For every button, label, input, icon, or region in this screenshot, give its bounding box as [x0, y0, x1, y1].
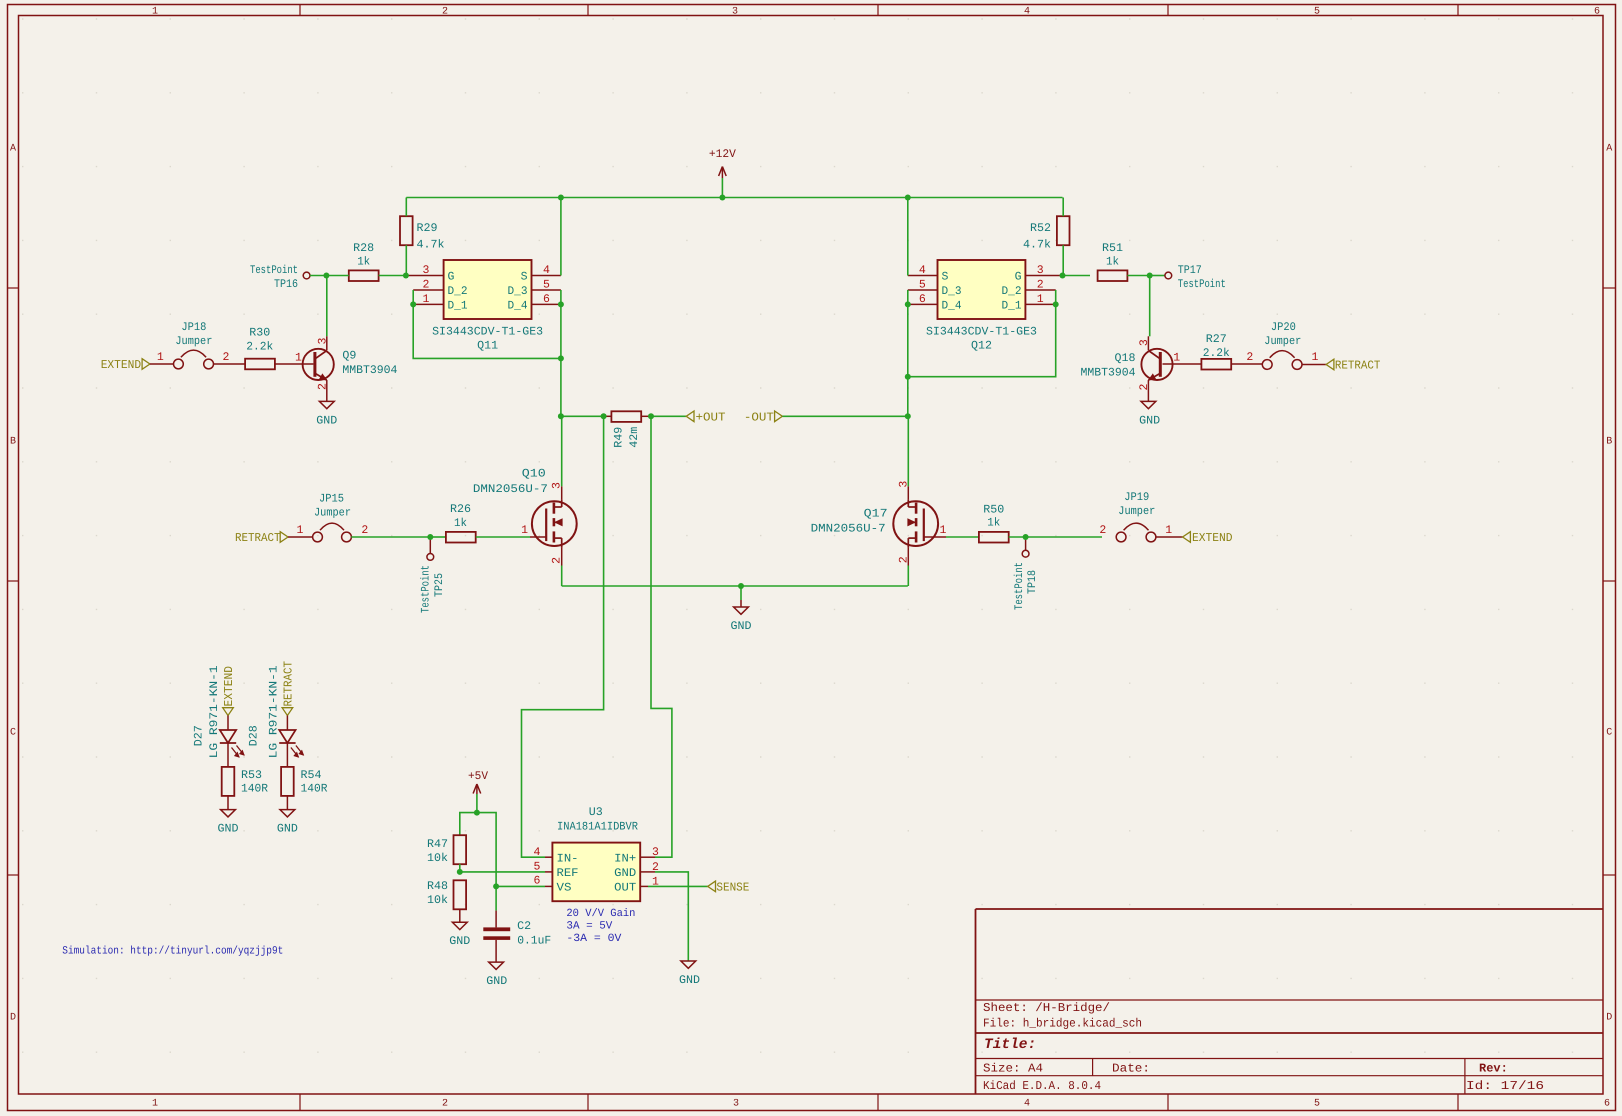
wire R54 to ground — [286, 796, 288, 809]
svg-text:5: 5 — [919, 279, 926, 292]
svg-text:6: 6 — [919, 293, 926, 306]
JP15 pin 1 number — [296, 524, 303, 537]
svg-text:2: 2 — [423, 279, 430, 292]
svg-text:A: A — [1606, 144, 1612, 155]
svg-text:TP18: TP18 — [1026, 570, 1039, 594]
svg-text:Q17: Q17 — [864, 508, 888, 521]
svg-text:+5V: +5V — [468, 770, 488, 783]
wire Q18 emitter to ground — [1147, 380, 1149, 401]
svg-text:Sheet: /H-Bridge/: Sheet: /H-Bridge/ — [983, 1001, 1110, 1015]
wire Q9 collector — [326, 276, 328, 351]
title block kicad text — [983, 1079, 1101, 1093]
svg-text:1: 1 — [1173, 352, 1180, 365]
svg-text:D28: D28 — [248, 725, 261, 746]
svg-text:TP16: TP16 — [274, 278, 298, 291]
svg-text:JP19: JP19 — [1124, 491, 1149, 504]
svg-text:42m: 42m — [628, 427, 641, 448]
frame column ticks — [300, 5, 1458, 1111]
svg-text:5: 5 — [534, 860, 541, 873]
svg-text:1k: 1k — [1106, 256, 1119, 269]
resistor R49 42m shunt — [611, 411, 641, 447]
svg-text:+OUT: +OUT — [696, 410, 726, 424]
ground R48 — [449, 922, 470, 948]
junction Q11 bracket / drain column — [558, 355, 564, 361]
wire IN- sense from +OUT — [522, 416, 604, 857]
svg-text:JP18: JP18 — [181, 321, 206, 334]
wire EXTEND to JP18 — [150, 363, 174, 365]
svg-text:1: 1 — [1312, 351, 1319, 364]
svg-text:140R: 140R — [301, 783, 328, 796]
svg-text:R26: R26 — [450, 503, 471, 516]
resistor R27 — [1201, 333, 1231, 370]
Q11 pin 3 G — [406, 264, 444, 277]
JP19 pin 1 number — [1165, 524, 1172, 537]
wire R30 to Q9 base — [275, 363, 313, 365]
junction +12V rail / Q11 S — [558, 195, 564, 201]
svg-text:MMBT3904: MMBT3904 — [342, 364, 397, 377]
junction Q11 D_4 — [558, 301, 564, 307]
svg-text:6: 6 — [1594, 7, 1600, 18]
Q10 pin 3 number — [550, 482, 563, 489]
wire source rail — [562, 585, 908, 587]
svg-text:TestPoint: TestPoint — [1178, 278, 1226, 291]
Q10 pin 2 number — [550, 557, 563, 564]
svg-text:S: S — [521, 271, 528, 284]
svg-text:GND: GND — [277, 823, 298, 836]
Q12 pin 3 G — [1025, 264, 1062, 277]
svg-text:GND: GND — [316, 414, 337, 427]
Q11 pin names — [448, 271, 528, 313]
ground D27 — [218, 810, 239, 836]
junction Q12 D_4 — [905, 301, 911, 307]
wire R49 to +OUT label — [651, 415, 686, 417]
wire Q12 D_2/D_1 right bracket — [908, 290, 1056, 377]
U3 pin 1 OUT — [640, 875, 659, 888]
junction -OUT / Q17 drain column — [905, 413, 911, 419]
wire D27 to R53 — [227, 743, 229, 766]
resistor R26 — [446, 503, 476, 543]
svg-text:2: 2 — [222, 351, 229, 364]
wire VS to U3 — [496, 885, 552, 887]
svg-text:10k: 10k — [427, 894, 448, 907]
junction +OUT / IN- sense — [601, 413, 607, 419]
svg-text:A: A — [10, 144, 16, 155]
wire R47 to REF junction — [459, 864, 461, 872]
svg-text:DMN2056U-7: DMN2056U-7 — [811, 523, 886, 536]
svg-text:G: G — [448, 271, 455, 284]
junction REF — [457, 869, 463, 875]
svg-text:VS: VS — [557, 882, 572, 895]
svg-text:R53: R53 — [241, 769, 262, 782]
JP20 pin 1 number — [1312, 351, 1319, 364]
svg-text:1k: 1k — [987, 517, 1000, 530]
Q11 reference label — [477, 340, 498, 353]
junction Q11 D_1 — [410, 301, 416, 307]
svg-text:D_4: D_4 — [942, 300, 962, 313]
svg-text:U3: U3 — [589, 806, 603, 819]
svg-text:3: 3 — [316, 337, 329, 344]
U3 pin 6 VS number — [534, 874, 541, 887]
Q11 pin 2 D_2 — [413, 279, 443, 292]
svg-text:2: 2 — [550, 557, 563, 564]
svg-text:MMBT3904: MMBT3904 — [1081, 367, 1136, 380]
svg-text:Id: 17/16: Id: 17/16 — [1466, 1079, 1544, 1093]
wire R52 top — [1062, 198, 1065, 217]
ground center — [731, 586, 752, 633]
wire +12V rail — [406, 197, 1062, 199]
svg-text:140R: 140R — [241, 783, 268, 796]
svg-text:2: 2 — [1246, 351, 1253, 364]
wire junction to R26 — [430, 536, 446, 538]
wire R52 bottom — [1062, 245, 1064, 275]
svg-text:SI3443CDV-T1-GE3: SI3443CDV-T1-GE3 — [432, 326, 543, 339]
Q18 pin 1 number — [1173, 352, 1180, 365]
svg-text:+12V: +12V — [709, 148, 736, 161]
wire R28 to gate junction — [379, 275, 406, 277]
hierarchical label RETRACT left — [235, 531, 288, 545]
svg-text:RETRACT: RETRACT — [235, 531, 281, 545]
Q18 pin 3 number — [1138, 339, 1151, 346]
svg-text:B: B — [10, 437, 16, 448]
svg-text:RETRACT: RETRACT — [1335, 359, 1381, 373]
svg-text:Q10: Q10 — [522, 468, 546, 481]
wire +OUT from drain column — [561, 415, 604, 417]
wire U3 GND pin to ground — [655, 872, 688, 961]
testpoint TP16 — [250, 264, 310, 291]
svg-text:5: 5 — [1314, 1099, 1320, 1110]
svg-text:D: D — [10, 1013, 16, 1024]
JP19 pin 2 number — [1099, 524, 1106, 537]
jumper JP18 — [174, 321, 214, 369]
svg-text:2: 2 — [1099, 524, 1106, 537]
svg-text:6: 6 — [534, 874, 541, 887]
svg-text:GND: GND — [679, 974, 700, 987]
led D27 LG R971-KN-1 — [193, 665, 245, 758]
svg-text:Q9: Q9 — [342, 350, 356, 363]
ground C2 — [486, 962, 507, 988]
Q12 reference label — [971, 340, 992, 353]
U3 pin 5 REF number — [534, 860, 541, 873]
svg-text:3: 3 — [732, 7, 738, 18]
svg-text:1: 1 — [152, 1099, 158, 1110]
resistor R51 — [1098, 242, 1128, 281]
svg-text:EXTEND: EXTEND — [1192, 531, 1233, 545]
svg-text:C2: C2 — [517, 920, 531, 933]
svg-text:-OUT: -OUT — [744, 410, 774, 424]
svg-text:2: 2 — [442, 1099, 448, 1110]
svg-text:D_2: D_2 — [448, 285, 468, 298]
svg-text:3: 3 — [733, 1099, 739, 1110]
ground D28 — [277, 810, 298, 836]
JP18 pin 1 number — [157, 351, 164, 364]
junction TP17 / Q18 collector — [1147, 273, 1153, 279]
svg-text:3: 3 — [652, 846, 659, 859]
svg-text:4: 4 — [543, 264, 550, 277]
Q9 pin 1 number — [295, 352, 302, 365]
wire R51 to TP17 junction — [1127, 275, 1149, 277]
svg-text:R48: R48 — [427, 880, 448, 893]
svg-text:R28: R28 — [353, 242, 374, 255]
svg-text:D27: D27 — [193, 725, 206, 746]
junction Q12 D_1 — [1053, 301, 1059, 307]
resistor R47 — [427, 835, 466, 865]
svg-text:Size: A4: Size: A4 — [983, 1062, 1043, 1076]
svg-text:OUT: OUT — [614, 882, 636, 895]
resistor R50 — [979, 504, 1009, 543]
wire JP18 to R30 — [213, 363, 245, 365]
Q12 pin 2 D_2 — [1025, 279, 1055, 292]
svg-text:R49: R49 — [612, 427, 625, 448]
transistor Q18 MMBT3904 — [1081, 349, 1173, 380]
Q12 pin 4 S — [908, 264, 938, 277]
resistor R54 — [281, 767, 327, 796]
wire RETRACT to D28 — [286, 716, 288, 731]
svg-text:2.2k: 2.2k — [246, 340, 273, 353]
svg-text:0.1uF: 0.1uF — [517, 934, 551, 947]
Q12 pin 1 D_1 — [1025, 293, 1055, 306]
Q9 pin 2 number — [316, 383, 329, 390]
svg-text:2: 2 — [442, 7, 448, 18]
svg-text:TP25: TP25 — [433, 573, 446, 597]
Q12 pin names — [942, 271, 1022, 313]
wire junction to TP17 — [1150, 275, 1165, 277]
svg-text:SENSE: SENSE — [716, 881, 749, 895]
resistor R30 — [245, 326, 275, 369]
title block frame — [976, 909, 1604, 1094]
svg-text:GND: GND — [1139, 414, 1160, 427]
svg-text:G: G — [1015, 271, 1022, 284]
wire R29 top — [405, 198, 407, 217]
junction VS — [493, 883, 499, 889]
wire R29 bottom — [405, 245, 407, 275]
junction +12V rail / +12V symbol — [719, 195, 725, 201]
wire C2 to ground — [495, 940, 497, 962]
wire JP19 to EXTEND — [1156, 536, 1183, 538]
wire R27 to JP20 — [1231, 363, 1262, 365]
Q10 pin 1 number — [521, 524, 528, 537]
wire Q17 drain — [907, 416, 909, 499]
svg-text:4.7k: 4.7k — [1023, 239, 1051, 252]
svg-text:2.2k: 2.2k — [1203, 347, 1230, 360]
wire Q11 S drop — [560, 198, 562, 276]
svg-text:3: 3 — [897, 481, 910, 488]
junction +5V — [474, 810, 480, 816]
wire +5V distribution — [460, 813, 496, 887]
svg-text:LG R971-KN-1: LG R971-KN-1 — [208, 665, 221, 758]
junction TP25 — [427, 534, 433, 540]
svg-text:JP20: JP20 — [1271, 321, 1296, 334]
wire JP15 to TP25 junction — [351, 536, 430, 538]
wire to R49 left — [604, 415, 612, 417]
svg-text:5: 5 — [543, 279, 550, 292]
Q11 pin 1 D_1 — [413, 293, 443, 306]
svg-text:TestPoint: TestPoint — [1013, 562, 1026, 610]
hierarchical label SENSE — [708, 881, 750, 895]
mosfet array Q12 SI3443CDV body — [938, 260, 1026, 319]
Q12 pin 5 D_3 — [908, 279, 938, 292]
junction R49 / IN+ sense — [648, 413, 654, 419]
junction TP16 / R28 / Q9 collector — [323, 273, 329, 279]
wire Q10 source — [561, 548, 563, 586]
wire Q18 base to R27 — [1163, 363, 1202, 365]
Q11 pin 5 D_3 — [532, 279, 561, 292]
resistor R28 — [349, 242, 379, 281]
svg-text:R51: R51 — [1102, 242, 1123, 255]
title block id text — [1466, 1079, 1544, 1093]
svg-text:3: 3 — [1138, 339, 1151, 346]
wire REF to U3 — [460, 871, 553, 873]
svg-text:2: 2 — [1037, 279, 1044, 292]
svg-text:GND: GND — [449, 935, 470, 948]
hierarchical label EXTEND right — [1183, 531, 1233, 545]
svg-text:1: 1 — [295, 352, 302, 365]
svg-text:D_3: D_3 — [942, 285, 962, 298]
JP15 pin 2 number — [361, 524, 368, 537]
Q9 pin 3 number — [316, 337, 329, 344]
mosfet Q17 DMN2056U-7 — [811, 500, 938, 548]
wire IN+ sense from -OUT — [651, 416, 672, 857]
resistor R48 — [427, 880, 466, 909]
svg-text:INA181A1IDBVR: INA181A1IDBVR — [557, 820, 638, 833]
title block title text — [984, 1037, 1036, 1053]
power +12V — [709, 148, 736, 198]
hierarchical label EXTEND vertical — [222, 666, 236, 716]
svg-text:File: h_bridge.kicad_sch: File: h_bridge.kicad_sch — [983, 1017, 1142, 1031]
svg-text:Q18: Q18 — [1115, 352, 1136, 365]
wire junction to R51 — [1063, 275, 1091, 277]
mosfet Q10 DMN2056U-7 — [473, 468, 577, 548]
JP20 pin 2 number — [1246, 351, 1253, 364]
wire Q11 D_2/D_1 left bracket — [413, 290, 561, 358]
svg-text:R54: R54 — [301, 769, 322, 782]
svg-text:GND: GND — [731, 620, 752, 633]
title block file text — [983, 1017, 1142, 1031]
jumper JP19 — [1116, 491, 1156, 542]
svg-text:1: 1 — [423, 293, 430, 306]
resistor R53 — [222, 767, 268, 796]
U3 reference label — [589, 806, 603, 819]
led D28 LG R971-KN-1 — [248, 665, 304, 758]
frame row letters — [10, 144, 1612, 1024]
svg-text:1k: 1k — [357, 256, 370, 269]
svg-text:1k: 1k — [454, 517, 467, 530]
svg-text:B: B — [1606, 437, 1612, 448]
junction R29 / R28 / Q11 G — [403, 273, 409, 279]
hierarchical label -OUT — [744, 410, 783, 424]
U3 pin 3 IN+ — [640, 846, 659, 859]
svg-text:C: C — [10, 728, 16, 739]
wire D28 to R54 — [286, 743, 288, 766]
svg-text:D_1: D_1 — [1002, 300, 1022, 313]
svg-text:SI3443CDV-T1-GE3: SI3443CDV-T1-GE3 — [926, 326, 1037, 339]
ground U3 — [679, 961, 700, 987]
svg-text:Jumper: Jumper — [175, 335, 212, 348]
svg-text:TP17: TP17 — [1178, 264, 1202, 277]
wire VS junction to C2 — [495, 886, 497, 927]
svg-text:EXTEND: EXTEND — [101, 358, 142, 372]
svg-text:R29: R29 — [417, 222, 438, 235]
svg-text:IN-: IN- — [557, 852, 579, 865]
Q12 pin 6 D_4 — [908, 293, 938, 306]
svg-text:10k: 10k — [427, 852, 448, 865]
ground Q9 — [316, 401, 337, 427]
wire Q9 emitter to ground — [326, 380, 328, 401]
mosfet array Q11 SI3443CDV body — [444, 260, 532, 319]
svg-text:-3A = 0V: -3A = 0V — [566, 933, 621, 945]
wire R48 to ground — [459, 909, 461, 922]
svg-text:3: 3 — [423, 264, 430, 277]
junction R52 / Q12 G / R51 — [1060, 273, 1066, 279]
svg-text:2: 2 — [361, 524, 368, 537]
svg-text:R47: R47 — [427, 838, 448, 851]
svg-text:4: 4 — [1024, 7, 1030, 18]
U3 pin 2 GND — [640, 861, 659, 874]
Q11 pin 4 S — [532, 264, 561, 277]
Q12 value label — [926, 326, 1037, 339]
svg-text:JP15: JP15 — [319, 493, 344, 506]
svg-text:D_1: D_1 — [448, 300, 468, 313]
frame row ticks — [8, 288, 1616, 875]
svg-text:TestPoint: TestPoint — [250, 264, 298, 277]
wire Q10 drain — [561, 416, 563, 499]
wire Q12 D3/D4 drop — [907, 290, 909, 416]
svg-text:3: 3 — [550, 482, 563, 489]
testpoint TP17 — [1165, 264, 1226, 291]
wire TP16 to junction — [310, 275, 326, 277]
wire Q11 D3/D4 drop to +OUT — [560, 290, 562, 416]
svg-text:D_4: D_4 — [508, 300, 528, 313]
junction TP18 — [1023, 534, 1029, 540]
testpoint TP25 — [420, 537, 446, 613]
svg-text:TestPoint: TestPoint — [420, 565, 433, 613]
svg-text:1: 1 — [152, 7, 158, 18]
svg-text:3A = 5V: 3A = 5V — [566, 921, 612, 933]
svg-text:3: 3 — [1037, 264, 1044, 277]
wire -OUT to Q17 drain column — [782, 415, 907, 417]
wire junction to R28 — [326, 275, 348, 277]
hierarchical label EXTEND left — [101, 358, 150, 372]
svg-text:Jumper: Jumper — [1118, 505, 1155, 518]
svg-text:R52: R52 — [1030, 222, 1051, 235]
U3 gain note text — [566, 908, 635, 945]
svg-text:D_2: D_2 — [1002, 285, 1022, 298]
svg-text:1: 1 — [1165, 524, 1172, 537]
Q17 pin 1 number — [940, 524, 947, 537]
resistor R29 — [400, 216, 445, 251]
op-amp U3 INA181A1IDBVR body — [552, 843, 640, 902]
testpoint TP18 — [1013, 537, 1039, 610]
svg-text:Simulation: http://tinyurl.com: Simulation: http://tinyurl.com/yqzjjp9t — [62, 946, 283, 958]
svg-text:4.7k: 4.7k — [417, 239, 445, 252]
svg-text:5: 5 — [1314, 7, 1320, 18]
svg-text:IN+: IN+ — [614, 852, 636, 865]
svg-text:Jumper: Jumper — [1264, 335, 1301, 348]
svg-text:RETRACT: RETRACT — [281, 661, 295, 707]
wire Q17 gate to R50 — [924, 536, 978, 538]
hierarchical label RETRACT vertical — [281, 661, 295, 716]
wire Q12 S drop — [907, 198, 909, 276]
svg-text:Jumper: Jumper — [314, 507, 351, 520]
svg-text:D: D — [1606, 1013, 1612, 1024]
svg-text:GND: GND — [486, 975, 507, 988]
svg-text:2: 2 — [897, 556, 910, 563]
svg-text:4: 4 — [919, 264, 926, 277]
svg-text:S: S — [942, 271, 949, 284]
wire RETRACT to JP15 — [288, 536, 313, 538]
wire R53 to ground — [227, 796, 229, 809]
svg-text:KiCad E.D.A. 8.0.4: KiCad E.D.A. 8.0.4 — [983, 1079, 1101, 1093]
jumper JP15 — [313, 493, 352, 542]
